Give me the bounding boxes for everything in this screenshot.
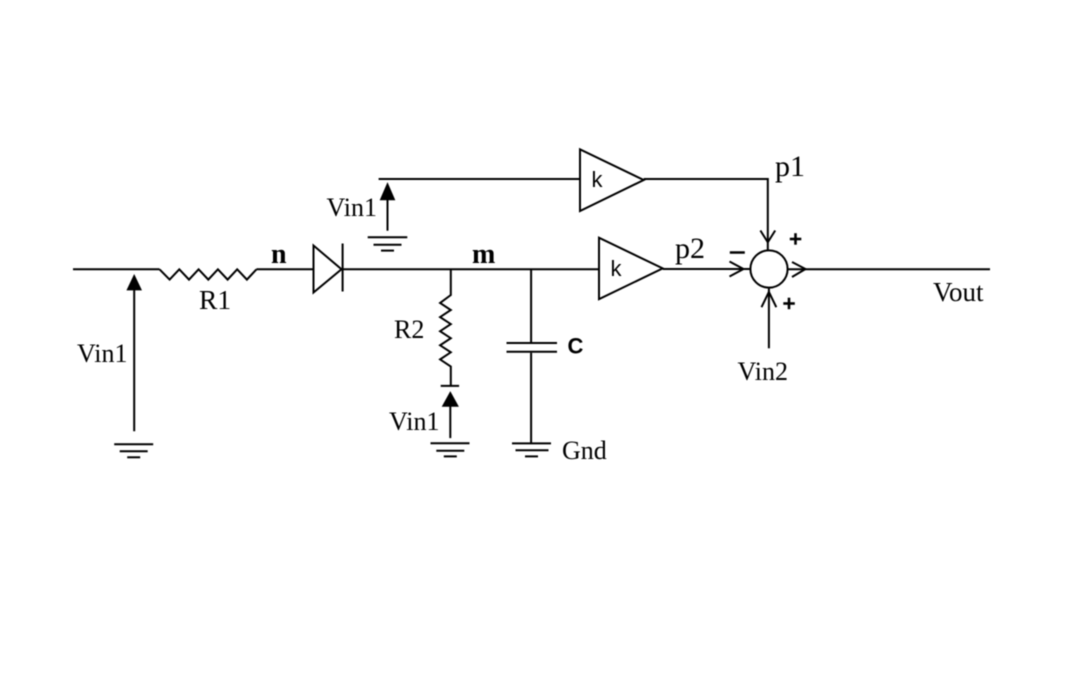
svg-text:C: C bbox=[568, 334, 584, 359]
wire: diode to gain block U2 (node m) bbox=[343, 268, 599, 270]
resistor R2 bbox=[440, 269, 451, 386]
wire: R1 to diode bbox=[257, 268, 314, 270]
ground (top middle Vin1) bbox=[368, 237, 408, 250]
svg-text:Vin1: Vin1 bbox=[327, 193, 377, 222]
svg-text:m: m bbox=[472, 239, 495, 270]
svg-text:R1: R1 bbox=[199, 284, 231, 315]
ground (below R2 Vin1) bbox=[431, 443, 470, 456]
plus sign (top right of summer) bbox=[790, 233, 802, 245]
wire: Vin2 vertical into summer bbox=[768, 288, 770, 349]
svg-text:n: n bbox=[271, 239, 287, 270]
svg-text:Gnd: Gnd bbox=[562, 436, 607, 465]
resistor R1 bbox=[160, 269, 257, 279]
svg-text:Vin1: Vin1 bbox=[389, 407, 439, 436]
svg-text:k: k bbox=[592, 167, 604, 192]
svg-text:R2: R2 bbox=[394, 315, 424, 344]
arrowhead into summer (top) bbox=[760, 231, 775, 243]
arrowhead out of summer bbox=[792, 262, 806, 277]
capacitor C plates bbox=[507, 343, 558, 352]
voltage source Vin1 arrow (left) bbox=[128, 276, 140, 289]
svg-text:p2: p2 bbox=[675, 232, 705, 265]
arrowhead into summer (bottom) bbox=[762, 292, 777, 307]
wire: Vin1 to gain block U1 input bbox=[379, 178, 580, 180]
capacitor C top lead bbox=[530, 269, 532, 342]
wire: left Vin1 vertical bbox=[133, 289, 135, 432]
minus sign at summer bbox=[730, 251, 745, 254]
summing junction S1 bbox=[750, 250, 787, 287]
ground (left Vin1) bbox=[114, 444, 153, 457]
wire: U1 output to corner and down to summer bbox=[644, 179, 768, 250]
wire: U2 output to summer bbox=[663, 268, 751, 270]
svg-text:k: k bbox=[611, 256, 623, 281]
voltage source Vin1 arrow (top middle) bbox=[381, 185, 394, 200]
wire: top middle Vin1 vertical bbox=[387, 199, 389, 231]
ground Gnd (below C) bbox=[512, 443, 551, 456]
wire: below-R2 Vin1 vertical bbox=[449, 405, 451, 438]
diode D1 bbox=[314, 246, 342, 293]
svg-text:Vout: Vout bbox=[933, 277, 984, 307]
svg-text:Vin1: Vin1 bbox=[77, 339, 127, 368]
wire: input left segment bbox=[73, 268, 160, 270]
voltage source Vin1 arrow (below R2) bbox=[443, 393, 457, 406]
svg-text:p1: p1 bbox=[775, 150, 805, 183]
capacitor C bottom lead bbox=[530, 353, 532, 443]
plus sign (bottom right of summer) bbox=[783, 298, 795, 310]
R2 bottom terminal bar bbox=[441, 385, 459, 387]
gain block U1 (k) bbox=[580, 149, 644, 211]
wire: summer output to Vout bbox=[788, 268, 990, 270]
arrowhead into summer (left) bbox=[730, 262, 744, 277]
diode D1 cathode bar bbox=[342, 244, 344, 292]
svg-text:Vin2: Vin2 bbox=[738, 357, 788, 386]
gain block U2 (k) bbox=[599, 238, 663, 299]
